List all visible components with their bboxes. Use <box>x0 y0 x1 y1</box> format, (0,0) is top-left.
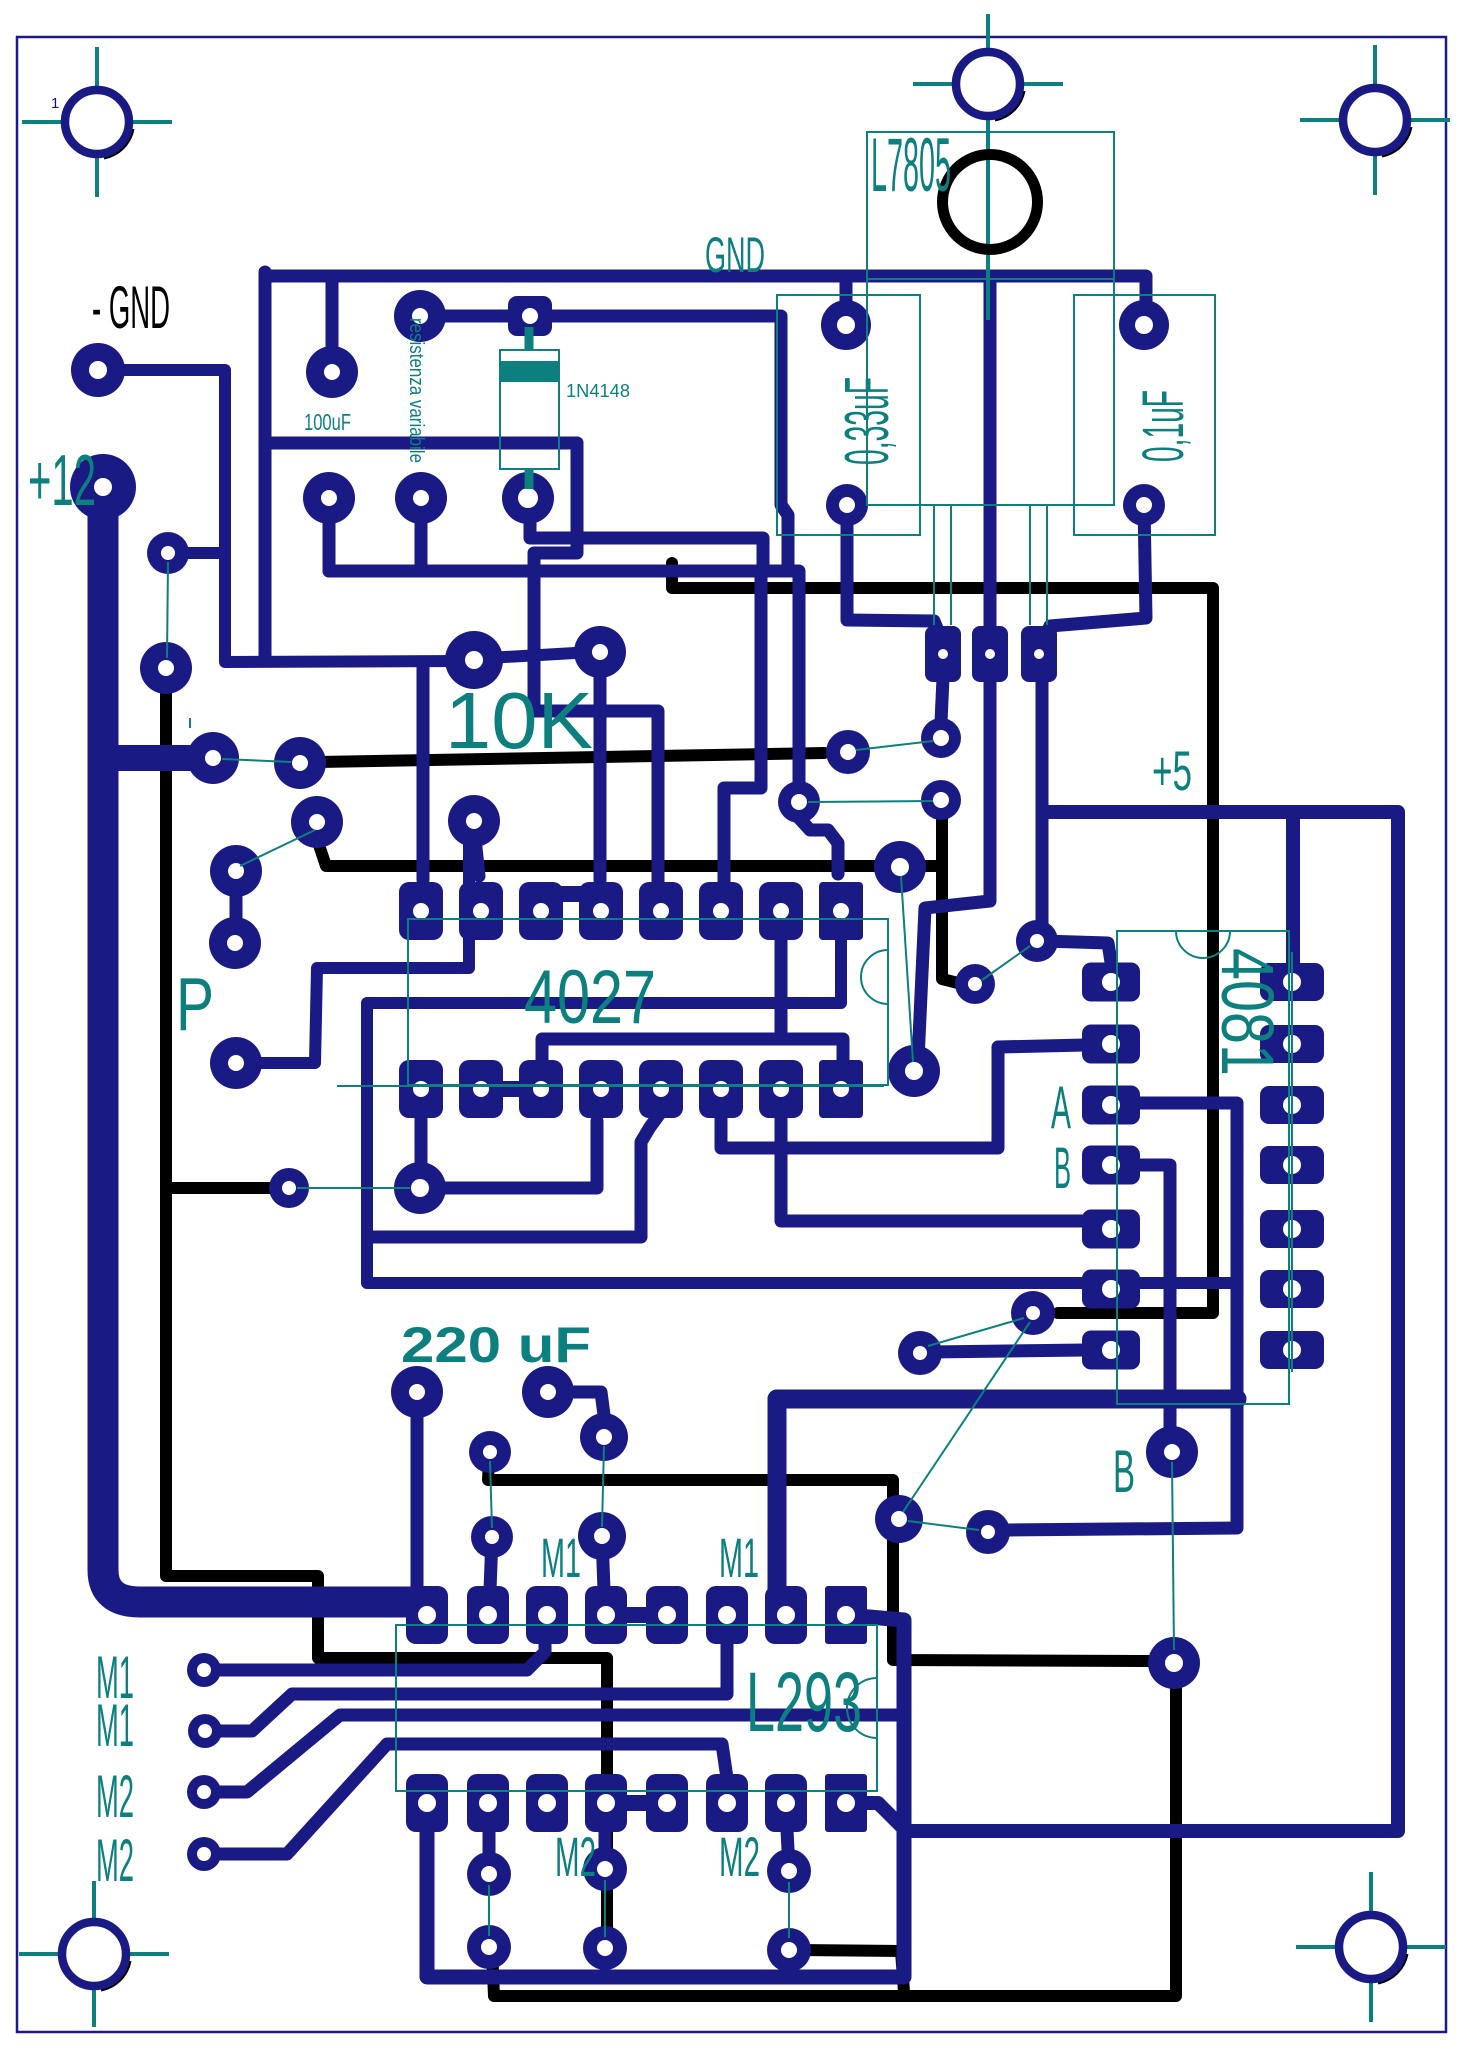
U1 4027 pin bottom 5 <box>639 1060 683 1118</box>
pad node P4 <box>210 1037 262 1089</box>
pad node S1 <box>875 1495 923 1543</box>
wire GND bus branch pad5 <box>534 571 658 884</box>
svg-text:M1: M1 <box>541 1526 581 1589</box>
svg-text:100uF: 100uF <box>304 409 351 435</box>
svg-text:M2: M2 <box>719 1825 760 1888</box>
pad cap 0.1uF bottom <box>1123 484 1165 526</box>
pad node R1 <box>1011 1291 1055 1335</box>
svg-text:M1: M1 <box>719 1526 759 1589</box>
wire M2 line3 <box>204 1715 897 1792</box>
wire GND bus branch pad6 <box>724 574 761 884</box>
wire long rect route <box>367 940 1233 1283</box>
wire +5 branch 4081 pin1R <box>1286 812 1300 972</box>
svg-text:10K: 10K <box>445 676 593 765</box>
U2 4081 pin left 5 <box>1082 1210 1140 1249</box>
pad 10K right end <box>826 730 870 774</box>
U3 regulator lead silk b <box>950 505 952 625</box>
U1 4027 pads2-3 bottom bar <box>481 1081 541 1097</box>
U4 L293 pin bottom 2 <box>467 1774 509 1832</box>
wire black bottom-layer net5 around L293 <box>488 1458 1155 1661</box>
wire GND top rail <box>265 276 1146 316</box>
diode D1 1N4148 outline <box>500 327 559 489</box>
pad +12 branch <box>187 732 239 784</box>
pad -GND <box>71 343 125 397</box>
svg-text:GND: GND <box>705 227 765 283</box>
pad reg link1 <box>921 718 961 758</box>
U1 4027 pin top 4 <box>579 882 623 940</box>
pad diode bottom <box>502 472 554 524</box>
wire M1 line1 <box>204 1638 545 1670</box>
ratsnest M2b <box>604 1880 606 1937</box>
svg-text:B: B <box>1113 1438 1135 1505</box>
U1 4027 pin top 5 <box>639 882 683 940</box>
pad 10K A <box>445 631 503 689</box>
pad node P2 <box>210 845 262 897</box>
U2 4081 pin right 4 <box>1260 1146 1324 1184</box>
wire GND bus middle <box>329 571 838 874</box>
wire net B pad column <box>1111 1165 1170 1448</box>
U4 L293 pin bottom 4 <box>585 1774 627 1832</box>
pad 220uF C2 <box>522 1366 574 1418</box>
U2 4081 pin right 5 <box>1260 1210 1324 1248</box>
wire M2 line4 <box>204 1744 727 1854</box>
wire P pad to 4027 pad2 <box>475 838 479 876</box>
wire 220uF2 elbow <box>548 1392 604 1415</box>
svg-text:P: P <box>176 962 214 1046</box>
U4 L293 pin top 4 <box>585 1586 627 1644</box>
wire 4027 pad1b-pad4b <box>437 1121 597 1188</box>
pad cap 0.33uF top <box>821 300 871 350</box>
U1 4027 pin bottom 6 <box>699 1060 743 1118</box>
wire regulator pin3 down <box>1036 680 1049 936</box>
U4 L293 pads4-5 top bar <box>606 1607 667 1623</box>
ratsnest P1-P2 <box>240 830 315 866</box>
svg-text:L7805: L7805 <box>871 123 951 208</box>
wire L293 pad8 loop <box>427 1615 904 1977</box>
U2 4081 outline <box>1117 931 1289 1404</box>
U2 4081 pin right 2 <box>1260 1025 1324 1063</box>
wire GND rail2 drop <box>259 440 272 658</box>
pad node S2 <box>966 1510 1010 1554</box>
pad node left <box>274 737 326 789</box>
pad P-link <box>448 795 500 847</box>
wire 10K drop pad1 <box>417 662 430 880</box>
wire GND stub trimmer pad <box>415 498 428 571</box>
wire 4027 pads67 link <box>721 1116 781 1148</box>
pad node T1 <box>1148 1637 1200 1689</box>
U4 L293 pin top 8 <box>825 1586 867 1644</box>
U1 4027 pin bottom 7 <box>759 1060 803 1118</box>
U1 4027 outline <box>408 919 888 1085</box>
ratsnest R1-S1 <box>903 1322 1030 1512</box>
wire link to 4081 pin5 <box>781 1148 1090 1221</box>
mounting hole bottom-left <box>19 1881 169 2027</box>
wire net A route <box>1008 1103 1237 1530</box>
wire 4027 pad7t drop <box>775 940 788 1034</box>
U3 L7805 pin1 pad <box>925 626 961 682</box>
svg-text:220 uF: 220 uF <box>401 1317 591 1373</box>
wire pad link M1b <box>602 1536 604 1590</box>
pad net stub bottom <box>140 642 192 694</box>
U4 L293 pin top 1 <box>406 1586 448 1644</box>
ratsnest 220uF link b <box>602 1446 604 1527</box>
ratsnest M2c <box>788 1882 790 1938</box>
wire pad pair stub <box>230 886 243 928</box>
U2 4081 pin right 6 <box>1260 1270 1324 1308</box>
wire pad 553 stub <box>168 547 222 559</box>
svg-text:1: 1 <box>51 95 59 112</box>
wire 4027 pad1b loop <box>415 1116 428 1166</box>
U3 L7805 pin2 pad <box>972 626 1008 682</box>
pad node P1 <box>291 796 343 848</box>
wire trimmer to bus <box>543 316 788 569</box>
pad trimmer top2 square <box>508 296 552 336</box>
pad +12 <box>70 454 136 520</box>
U2 4081 pin right 3 <box>1260 1086 1324 1124</box>
svg-text:- GND: - GND <box>92 274 170 341</box>
wire black bottom-layer net4 left long run <box>166 680 607 1938</box>
U1 4027 pin bottom 1 <box>399 1060 443 1118</box>
U4 L293 outline <box>396 1625 877 1791</box>
ratsnest Q2-Q5 <box>901 876 913 1062</box>
wire M1 line2 <box>205 1643 727 1731</box>
U3 L7805 outline <box>867 132 1114 505</box>
wire 4027 pad5b route <box>372 1112 661 1237</box>
U4 L293 pin top 6 <box>706 1586 748 1644</box>
U2 4081 pin left 4 <box>1082 1146 1140 1185</box>
silk tick mark <box>189 718 191 728</box>
pad node P3 <box>209 917 261 969</box>
U1 4027 pin top 3 <box>519 882 563 940</box>
ratsnest R2-R1 <box>928 1318 1024 1346</box>
wire black bottom-layer net2 long run right <box>672 563 1213 1313</box>
U1 4027 pin bottom 3 <box>519 1060 563 1118</box>
svg-text:B: B <box>1054 1136 1071 1201</box>
svg-text:L293: L293 <box>746 1655 862 1749</box>
ratsnest S1-S2 <box>908 1521 979 1530</box>
wire GND stub diode pad <box>530 498 575 538</box>
pad motor M2c bottom <box>767 1928 811 1972</box>
mounting hole 1 top-left <box>22 47 172 197</box>
wire black bottom-layer net5 lower loop <box>492 1676 1176 1996</box>
U1 4027 pin top 6 <box>699 882 743 940</box>
pad conn M1-2 <box>188 1714 222 1748</box>
pad M1 link top <box>580 1413 628 1461</box>
wire +12 thick bus <box>103 495 428 1602</box>
pad motor M2a bottom <box>467 1925 511 1969</box>
U2 4081 pin right 1 <box>1260 963 1324 1001</box>
pad 4027 aux <box>394 1162 446 1214</box>
svg-text:M2: M2 <box>555 1825 596 1888</box>
ratsnest P5-aux <box>297 1187 410 1189</box>
pad M1 link bottom <box>578 1512 626 1560</box>
wire 10K drop pad4 <box>594 655 607 880</box>
wire cap2 bottom to pin3 <box>1043 505 1146 642</box>
wire GND stub 100uF <box>326 276 339 372</box>
pad 220uF C1 <box>391 1366 443 1418</box>
wire net B horizontal <box>777 1390 1237 1409</box>
wire GND stub cap pad <box>323 498 336 571</box>
svg-text:M2: M2 <box>96 1827 134 1894</box>
pad motor M2c top <box>767 1849 811 1893</box>
pad cap 0.1uF top <box>1119 300 1169 350</box>
U2 4081 pin left 1 <box>1082 963 1140 1002</box>
U1 4027 pin bottom 8 <box>819 1060 863 1118</box>
svg-text:M2: M2 <box>96 1763 134 1830</box>
wire regulator pin2 down <box>918 680 990 1060</box>
wire 4081 pin7 feed <box>930 1350 1085 1352</box>
U2 4081 pin left 2 <box>1082 1025 1140 1064</box>
svg-text:M1: M1 <box>96 1692 134 1759</box>
ratsnest 4081 right column <box>1291 952 1293 1372</box>
wire regulator pin1 stub <box>941 678 943 722</box>
pad 10K B <box>574 626 626 678</box>
wire -GND pad route <box>98 370 462 662</box>
ratsnest Q1-reg2 <box>808 801 933 802</box>
svg-text:4027: 4027 <box>524 955 656 1040</box>
wire black bottom-layer net1 10K bus <box>318 753 824 762</box>
U3 regulator lead silk c <box>1029 505 1031 625</box>
ratsnest pads 553-668 <box>167 562 168 658</box>
U1 4027 pads3-4 top bar <box>541 886 601 902</box>
wire 220uF1 drop <box>411 1392 424 1592</box>
mounting hole top-center <box>913 14 1063 320</box>
wire GND drop to regulator pin2 <box>984 276 997 640</box>
pad M1 link2 bottom <box>471 1516 513 1558</box>
pad net B <box>1146 1426 1198 1478</box>
pad node Q3 <box>955 964 995 1004</box>
pad motor M2a top <box>467 1852 511 1896</box>
U4 L293 pin bottom 3 <box>526 1774 568 1832</box>
U4 L293 pin top 3 <box>526 1586 568 1644</box>
wire black branch motor pad <box>798 1950 904 1992</box>
pad trimmer bottom <box>395 472 447 524</box>
pad motor M2b top <box>583 1847 627 1891</box>
wire cap1 top elbow <box>840 276 853 322</box>
U2 4081 pin right 7 <box>1260 1331 1324 1369</box>
pad conn M2-2 <box>187 1837 221 1871</box>
wire GND rail2 branch right <box>577 538 763 567</box>
pad node Q2 <box>874 841 926 893</box>
pad conn M1-1 <box>187 1653 221 1687</box>
wire black bottom-layer net3 vertical stub <box>942 812 962 984</box>
U4 L293 pin bottom 6 <box>706 1774 748 1832</box>
wire GND rail2 <box>265 272 577 443</box>
pad trimmer top <box>394 290 446 342</box>
wire trimmer top link <box>420 310 530 323</box>
wire L293 pad4 stub <box>599 1830 612 1868</box>
ratsnest M2a <box>488 1885 490 1936</box>
pad cap 0.33uF bottom <box>826 484 868 526</box>
U2 4081 pin left 6 <box>1082 1270 1140 1309</box>
pad conn M2-1 <box>187 1775 221 1809</box>
U4 L293 pin top 2 <box>467 1586 509 1644</box>
pad node Q5 <box>888 1045 940 1097</box>
wire link to 4081 pin2 <box>781 1045 1085 1148</box>
wire P net route <box>236 836 469 1063</box>
pad M1 link2 top <box>469 1431 511 1473</box>
pad node Q1 <box>778 781 820 823</box>
pad node Q4 <box>1016 920 1058 962</box>
U3 L7805 tab line <box>867 278 1114 280</box>
wire 4081 pin1 feed <box>1043 941 1113 975</box>
pad 100uF top <box>306 346 358 398</box>
pad motor M2b bottom <box>583 1926 627 1970</box>
U4 L293 pin bottom 1 <box>406 1774 448 1832</box>
ratsnest 220uF link a <box>490 1461 492 1528</box>
svg-text:0,33uF: 0,33uF <box>833 377 902 465</box>
wire L293 pad2 stub <box>483 1830 496 1872</box>
mounting hole top-right <box>1300 45 1450 195</box>
wire GND rail2 drop to bus <box>534 443 577 571</box>
U4 L293 pads4-5 bottom bar <box>606 1795 667 1811</box>
svg-text:+5: +5 <box>1152 739 1192 802</box>
pad reg link2 <box>921 780 961 820</box>
wire 4027 bottom bus <box>542 1039 843 1062</box>
pad 100uF bottom <box>303 472 355 524</box>
svg-text:0,1uF: 0,1uF <box>1131 390 1196 462</box>
wire pad link M1a <box>490 1537 492 1590</box>
U1 4027 pin bottom 2 <box>459 1060 503 1118</box>
capacitor C2 0.33uF outline <box>777 295 920 535</box>
U4 L293 pin bottom 7 <box>765 1774 807 1832</box>
wire +5 from L293 pad8b <box>846 812 1398 1831</box>
U3 regulator lead silk d <box>1046 505 1048 625</box>
ratsnest B pad down <box>1172 1462 1174 1650</box>
U1 4027 pin top 2 <box>459 882 503 940</box>
ratsnest +12 branch <box>222 759 291 762</box>
U4 L293 pin top 7 <box>765 1586 807 1644</box>
wire net B drop to L293 pad7t <box>768 1399 787 1612</box>
U1 4027 pin top 7 <box>759 882 803 940</box>
svg-text:4081: 4081 <box>1206 948 1289 1076</box>
wire cap1 bottom to pin1 <box>847 505 941 638</box>
wire +12 stub to pad <box>104 745 192 771</box>
U2 4081 pin left 3 <box>1082 1086 1140 1125</box>
wire GND stub C2 top <box>840 276 853 322</box>
svg-text:1N4148: 1N4148 <box>566 381 630 401</box>
U1 4027 pin top 1 <box>399 882 443 940</box>
U3 L7805 mounting ring <box>943 155 1038 250</box>
ratsnest 4027 bottom row <box>337 1085 884 1087</box>
ratsnest 10K-reg1 <box>856 741 933 750</box>
U3 L7805 pin3 pad <box>1021 626 1057 682</box>
mounting hole bottom-right <box>1296 1872 1446 2022</box>
wire black bottom-layer net3 branch left <box>317 828 942 866</box>
wire black bottom-layer net4 branch to pad <box>166 1182 274 1194</box>
U4 L293 pin top 5 <box>646 1586 688 1644</box>
pad net stub top <box>147 532 189 574</box>
ratsnest Q3-Q4 <box>982 946 1030 980</box>
svg-text:A: A <box>1051 1074 1071 1141</box>
capacitor C3 0.1uF outline <box>1074 295 1215 535</box>
wire 10K link pads <box>488 652 592 658</box>
U2 4081 pin left 7 <box>1082 1331 1140 1370</box>
pad node P5 <box>269 1168 309 1208</box>
U3 regulator lead silk a <box>933 505 935 625</box>
pad node R2 <box>898 1331 942 1375</box>
U4 L293 pin bottom 8 <box>825 1774 867 1832</box>
wire L293 pad7 stub <box>787 1830 789 1869</box>
svg-text:+12: +12 <box>28 441 96 521</box>
U1 4027 pin top 8 <box>819 882 863 940</box>
U1 4027 pin bottom 4 <box>579 1060 623 1118</box>
U4 L293 pin bottom 5 <box>646 1774 688 1832</box>
svg-text:resistenza variabile: resistenza variabile <box>405 318 427 463</box>
